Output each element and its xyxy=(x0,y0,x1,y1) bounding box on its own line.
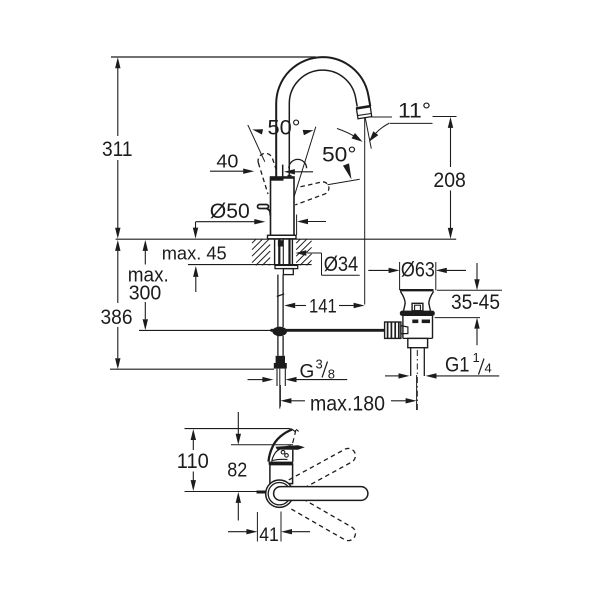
dimension max.180 arrows xyxy=(280,398,416,403)
outlet tilted axis line (11 deg) xyxy=(365,118,371,149)
lever pivot pin xyxy=(282,165,284,178)
dimension 386 vertical line with arrows xyxy=(115,240,120,369)
front view axis reference line xyxy=(185,491,266,493)
pop-up rod stub (front view) xyxy=(257,491,267,494)
dimension max.45 down arrow (into counter top) xyxy=(193,222,198,239)
dimension 82 upper arrow xyxy=(236,412,241,445)
svg-text:1: 1 xyxy=(473,350,480,365)
escutcheon outer circle xyxy=(266,480,293,507)
rod below ball joint xyxy=(278,336,283,356)
svg-text:max. 45: max. 45 xyxy=(162,243,227,264)
waste seal flange (dark) xyxy=(400,311,435,316)
dimension max.45 up arrow (from below counter) xyxy=(193,266,198,292)
svg-text:3: 3 xyxy=(316,357,323,372)
outlet level reference line xyxy=(371,116,392,118)
dimension 208 vertical line with arrows xyxy=(448,117,453,239)
washer under counter xyxy=(275,265,298,268)
spout outer contour xyxy=(276,57,370,177)
svg-text:35-45: 35-45 xyxy=(451,291,500,314)
label 50 degrees (lever tilt, first) xyxy=(268,117,301,140)
base plate flange xyxy=(268,235,297,239)
pop-up rod knob on body xyxy=(258,205,271,216)
ball joint xyxy=(272,327,287,337)
11deg arc with arrow (left side) xyxy=(337,129,363,142)
knob cone connector xyxy=(401,326,408,334)
label diameter 34 xyxy=(324,253,359,276)
G3/8 connection nut xyxy=(274,356,287,369)
svg-text:141: 141 xyxy=(309,295,337,317)
dimension max.180 extension lines xyxy=(280,375,416,410)
lever handle hidden edge (dashed) xyxy=(292,430,296,445)
label max. 45 xyxy=(162,243,227,264)
dimension 40 left arrow xyxy=(210,169,254,174)
dimension diameter63 arrows xyxy=(368,268,466,273)
handle body (front view) xyxy=(270,465,293,484)
body top-right nub xyxy=(288,175,291,177)
pop-up rod (vertical) xyxy=(277,275,284,327)
front view top reference line with curl xyxy=(185,429,299,433)
label 208 xyxy=(433,169,466,192)
label diameter 50 xyxy=(210,200,250,223)
horizontal linkage rod to waste xyxy=(271,329,385,332)
dimension 82 lower arrow xyxy=(236,492,241,521)
handle right edge below blade xyxy=(292,450,294,462)
lever handle inner contour xyxy=(272,446,291,462)
dimension 141 line with arrows xyxy=(284,303,364,308)
dimension diameter50 right arrow with extension line xyxy=(297,215,326,236)
svg-text:Ø34: Ø34 xyxy=(324,253,359,276)
label 386 xyxy=(101,306,133,329)
vertical centerline from spout outlet xyxy=(364,117,366,305)
lever base cap (dark) xyxy=(271,178,284,181)
handle bottom inner contour xyxy=(272,459,288,460)
label 50 degrees (second) xyxy=(322,143,357,166)
label max. 300 xyxy=(128,265,169,305)
waste body xyxy=(403,316,433,338)
label 141 xyxy=(309,295,337,317)
waste tail pipe xyxy=(411,348,425,376)
angle 50deg second: leg line along lever xyxy=(328,179,360,185)
mounting nut xyxy=(283,269,293,275)
aerator on spout tip xyxy=(356,106,371,119)
11deg label underline xyxy=(390,122,433,124)
label 82 xyxy=(227,459,247,481)
label diameter 63 xyxy=(401,259,435,282)
svg-text:Ø63: Ø63 xyxy=(401,259,435,282)
waste plug cap top xyxy=(400,289,434,291)
label 35-45 xyxy=(451,291,500,314)
svg-text:4: 4 xyxy=(485,361,492,376)
faucet spout height reference line (top) xyxy=(111,56,316,58)
dimension 41 extension lines xyxy=(257,512,281,542)
waste lower step xyxy=(408,338,428,347)
handle detail circles xyxy=(281,450,288,457)
dimension 41 arrows xyxy=(228,529,310,534)
dimension 40 right arrow xyxy=(284,169,313,174)
svg-text:41: 41 xyxy=(259,524,279,546)
label 40 xyxy=(216,152,238,172)
lever handle outer sweep curve xyxy=(269,429,293,461)
faucet body xyxy=(271,177,295,235)
label 41 xyxy=(259,524,279,546)
diameter 63 extension lines xyxy=(400,262,436,290)
label G 3/8 xyxy=(300,357,336,383)
solid lever arm (front view) xyxy=(274,487,368,501)
svg-text:110: 110 xyxy=(177,450,209,473)
max300 reference line at rod level xyxy=(139,329,272,331)
lever blade (dark) xyxy=(276,445,305,450)
dashed lever arm lowered position xyxy=(289,495,356,541)
escutcheon inner circle xyxy=(268,483,290,505)
svg-text:40: 40 xyxy=(216,152,238,172)
svg-text:11°: 11° xyxy=(398,100,431,123)
dimension 82 reference line (lever blade top) xyxy=(231,444,293,446)
dimension max.300 vertical line with arrows xyxy=(143,240,148,330)
angle 50deg second: down arrow xyxy=(343,163,352,179)
svg-text:Ø50: Ø50 xyxy=(210,200,250,223)
svg-text:50°: 50° xyxy=(268,117,301,140)
dashed lever in raised-left position xyxy=(258,153,276,194)
svg-text:G1: G1 xyxy=(445,353,470,376)
svg-text:208: 208 xyxy=(433,169,466,192)
label G1 1/4 xyxy=(445,350,492,376)
spout inner contour xyxy=(289,70,357,177)
dimension 35-45 arrows xyxy=(474,263,479,345)
diameter 34 leader line xyxy=(295,250,359,275)
svg-text:82: 82 xyxy=(227,459,247,481)
threaded shank through counter xyxy=(275,239,293,265)
waste square stem xyxy=(412,303,423,311)
counter slab bottom reference line xyxy=(188,264,312,266)
lever rotation arc symbol xyxy=(289,159,307,168)
dimension diameter50 left arrow xyxy=(196,219,266,224)
label 311 xyxy=(102,138,133,161)
dimension 311 vertical line with arrows xyxy=(115,57,120,239)
svg-text:300: 300 xyxy=(129,283,162,305)
dashed lever in lowered-right position xyxy=(295,182,329,205)
label 110 xyxy=(177,450,209,473)
dashed lever arm raised position xyxy=(289,448,356,492)
waste body slots (dark) xyxy=(412,320,430,324)
counter slab hatching xyxy=(252,239,312,265)
dimension 386 bottom reference line xyxy=(110,368,274,370)
countertop reference line xyxy=(116,238,457,240)
svg-text:311: 311 xyxy=(102,138,133,161)
svg-text:386: 386 xyxy=(101,306,133,329)
dimension G3/8 arrows xyxy=(248,377,348,382)
handle body top band (dark) xyxy=(269,462,294,465)
shank slot detail (dark) xyxy=(278,240,284,246)
supply pipe below G3/8 nut xyxy=(277,369,285,409)
label 11 degrees xyxy=(398,100,431,123)
connector line to 208 dimension xyxy=(433,116,457,118)
11deg arc with arrow (right side) xyxy=(369,123,390,142)
waste plug neck sides xyxy=(400,291,433,310)
angle 50deg first: right leg line xyxy=(294,127,316,197)
waste centerline (dash-dot) xyxy=(416,350,418,410)
dimension 35-45 reference lines xyxy=(435,290,502,317)
dimension 110 vertical line with arrows xyxy=(191,429,196,491)
label max.180 xyxy=(310,393,385,416)
angle 50deg first: left arc arrow xyxy=(252,129,263,134)
dimension G1 1/4 arrows xyxy=(385,373,499,378)
svg-text:50°: 50° xyxy=(322,143,357,166)
svg-text:max.180: max.180 xyxy=(310,393,385,416)
knurled adjuster knob xyxy=(385,322,401,338)
angle 50deg first: right arc arrow xyxy=(303,130,314,135)
angle 50deg first: left leg line xyxy=(248,125,265,162)
